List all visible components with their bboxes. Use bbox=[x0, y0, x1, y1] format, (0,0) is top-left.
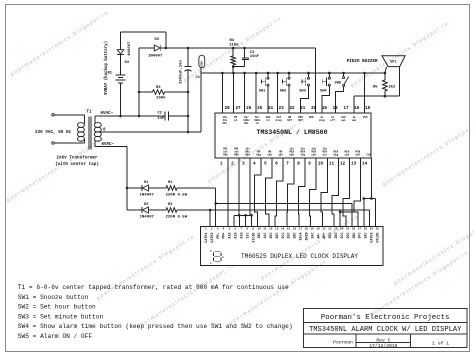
svg-text:26: 26 bbox=[246, 107, 252, 111]
svg-text:CATH2: CATH2 bbox=[211, 233, 215, 243]
svg-text:16: 16 bbox=[293, 227, 297, 230]
svg-text:SW2: SW2 bbox=[280, 89, 287, 93]
svg-text:c&d: c&d bbox=[344, 153, 349, 157]
svg-text:COLON: COLON bbox=[376, 233, 380, 243]
svg-text:T1: T1 bbox=[87, 111, 93, 115]
svg-text:D4: D4 bbox=[125, 61, 130, 65]
svg-text:b&g: b&g bbox=[333, 153, 338, 157]
svg-text:15: 15 bbox=[365, 107, 371, 111]
svg-text:SW2 = Set hour button: SW2 = Set hour button bbox=[18, 304, 96, 311]
svg-text:CATH1: CATH1 bbox=[205, 233, 209, 243]
svg-text:14: 14 bbox=[362, 163, 368, 167]
svg-text:9: 9 bbox=[252, 227, 254, 230]
svg-text:27: 27 bbox=[358, 227, 362, 230]
svg-text:19: 19 bbox=[322, 107, 328, 111]
svg-text:3BC: 3BC bbox=[353, 233, 357, 239]
svg-text:2DC: 2DC bbox=[276, 233, 280, 239]
svg-text:9VBAT (backup battery): 9VBAT (backup battery) bbox=[104, 41, 109, 95]
svg-text:2CC: 2CC bbox=[282, 233, 286, 239]
svg-text:1N4007: 1N4007 bbox=[128, 41, 132, 56]
svg-text:Poorman: Poorman bbox=[333, 340, 353, 346]
svg-text:off: off bbox=[330, 118, 335, 122]
svg-text:21: 21 bbox=[300, 107, 306, 111]
svg-text:27: 27 bbox=[235, 107, 241, 111]
svg-text:SW4 = Show alarm time button (: SW4 = Show alarm time button (keep press… bbox=[18, 323, 293, 330]
svg-text:20: 20 bbox=[316, 227, 320, 230]
svg-text:R1: R1 bbox=[168, 181, 173, 185]
svg-text:SW3 = Set minute button: SW3 = Set minute button bbox=[18, 313, 104, 320]
svg-text:18: 18 bbox=[333, 107, 339, 111]
svg-text:PM+: PM+ bbox=[223, 233, 227, 239]
svg-text:SET: SET bbox=[298, 119, 303, 122]
svg-text:C1: C1 bbox=[196, 76, 201, 80]
svg-text:18: 18 bbox=[305, 227, 309, 230]
svg-text:22: 22 bbox=[328, 227, 332, 230]
svg-text:3CC: 3CC bbox=[341, 233, 345, 239]
svg-text:17/12/2016: 17/12/2016 bbox=[369, 343, 397, 349]
svg-text:30: 30 bbox=[376, 227, 380, 230]
svg-text:15nF: 15nF bbox=[250, 55, 260, 59]
svg-text:dot: dot bbox=[322, 153, 327, 157]
svg-text:25: 25 bbox=[257, 107, 263, 111]
svg-text:disp: disp bbox=[319, 118, 326, 122]
svg-text:17: 17 bbox=[299, 227, 303, 230]
svg-text:1000uF,16v: 1000uF,16v bbox=[180, 59, 184, 84]
svg-text:29: 29 bbox=[370, 227, 374, 230]
svg-text:24: 24 bbox=[340, 227, 344, 230]
svg-text:1BC: 1BC bbox=[258, 233, 262, 239]
svg-text:T1 = 6-0-6v center tapped tran: T1 = 6-0-6v center tapped transformer, r… bbox=[18, 284, 289, 291]
svg-text:13: 13 bbox=[275, 227, 279, 230]
svg-text:13: 13 bbox=[351, 163, 357, 167]
svg-text:HRb: HRb bbox=[234, 153, 239, 157]
svg-text:3DC: 3DC bbox=[335, 233, 339, 239]
svg-text:3AC: 3AC bbox=[365, 233, 369, 239]
svg-text:R5: R5 bbox=[373, 86, 378, 90]
svg-text:17: 17 bbox=[343, 107, 349, 111]
svg-text:b&g: b&g bbox=[256, 153, 261, 157]
svg-text:AM-: AM- bbox=[317, 233, 321, 239]
svg-text:26: 26 bbox=[352, 227, 356, 230]
svg-text:10: 10 bbox=[318, 163, 324, 167]
svg-text:2BC: 2BC bbox=[294, 233, 298, 239]
svg-text:auL: auL bbox=[352, 119, 357, 122]
svg-text:24: 24 bbox=[268, 107, 274, 111]
svg-text:VSS: VSS bbox=[363, 116, 368, 119]
svg-text:LA: LA bbox=[234, 119, 238, 122]
svg-text:Rev C: Rev C bbox=[376, 337, 390, 343]
svg-text:c&d: c&d bbox=[267, 153, 272, 157]
svg-text:1N4007: 1N4007 bbox=[140, 216, 155, 220]
svg-text:20: 20 bbox=[311, 107, 317, 111]
svg-text:Poorman's Electronic Projects: Poorman's Electronic Projects bbox=[321, 314, 450, 322]
svg-text:c&e: c&e bbox=[311, 154, 316, 157]
svg-text:A1D: A1D bbox=[235, 233, 239, 239]
svg-text:31C: 31C bbox=[246, 233, 250, 239]
svg-text:2k2: 2k2 bbox=[389, 85, 397, 90]
svg-text:SW1: SW1 bbox=[259, 89, 266, 93]
svg-text:10sA: 10sA bbox=[300, 232, 304, 241]
svg-text:HRa: HRa bbox=[223, 154, 228, 157]
svg-text:HRe: HRe bbox=[245, 154, 250, 157]
svg-text:23: 23 bbox=[279, 107, 285, 111]
svg-text:2x6v Transformer: 2x6v Transformer bbox=[56, 156, 98, 161]
svg-text:28: 28 bbox=[225, 107, 231, 111]
svg-text:R4: R4 bbox=[230, 39, 235, 43]
svg-text:LA: LA bbox=[256, 122, 260, 125]
svg-text:12: 12 bbox=[340, 163, 346, 167]
svg-text:D3: D3 bbox=[155, 38, 160, 42]
svg-text:15: 15 bbox=[287, 227, 291, 230]
svg-text:D1: D1 bbox=[144, 181, 149, 185]
svg-text:f&g: f&g bbox=[300, 153, 305, 157]
svg-text:TMS3450NL / LM8560: TMS3450NL / LM8560 bbox=[256, 129, 327, 136]
svg-text:SW3: SW3 bbox=[299, 89, 306, 93]
svg-text:19: 19 bbox=[311, 227, 315, 230]
svg-text:R2: R2 bbox=[168, 203, 173, 207]
svg-text:PM-: PM- bbox=[217, 233, 221, 239]
svg-text:GND: GND bbox=[201, 61, 204, 67]
svg-text:D2: D2 bbox=[144, 203, 149, 207]
svg-text:auL: auL bbox=[341, 119, 346, 122]
svg-text:SW4: SW4 bbox=[320, 89, 327, 93]
svg-text:a&f: a&f bbox=[278, 153, 283, 157]
svg-text:16: 16 bbox=[354, 107, 360, 111]
svg-text:21: 21 bbox=[322, 227, 326, 230]
svg-text:14: 14 bbox=[281, 227, 285, 230]
svg-text:1N4007: 1N4007 bbox=[148, 54, 163, 58]
svg-text:2EC: 2EC bbox=[270, 233, 274, 239]
svg-text:100k: 100k bbox=[156, 96, 166, 101]
svg-text:TMS3450NL ALARM CLOCK W/ LED D: TMS3450NL ALARM CLOCK W/ LED DISPLAY bbox=[309, 326, 462, 334]
svg-text:SW5 = Alarm ON / OFF: SW5 = Alarm ON / OFF bbox=[18, 333, 93, 340]
svg-text:1nF: 1nF bbox=[157, 117, 165, 121]
svg-text:5: 5 bbox=[229, 227, 231, 230]
svg-text:2AC: 2AC bbox=[311, 233, 315, 239]
svg-text:PIEZO BUZZER: PIEZO BUZZER bbox=[347, 59, 378, 64]
svg-text:11: 11 bbox=[329, 163, 335, 167]
svg-text:6VAC~: 6VAC~ bbox=[101, 112, 114, 116]
svg-text:TM60525 DUPLEX LED CLOCK DISPL: TM60525 DUPLEX LED CLOCK DISPLAY bbox=[241, 253, 358, 260]
svg-text:SW1 = Snooze button: SW1 = Snooze button bbox=[18, 294, 89, 301]
svg-text:22: 22 bbox=[289, 107, 295, 111]
svg-text:R3: R3 bbox=[156, 86, 161, 90]
svg-text:3FC: 3FC bbox=[359, 233, 363, 239]
svg-text:2GC: 2GC bbox=[288, 233, 292, 239]
svg-text:COL: COL bbox=[367, 154, 372, 157]
svg-text:3GC: 3GC bbox=[347, 233, 351, 239]
svg-text:SP1: SP1 bbox=[390, 61, 396, 65]
svg-text:1AC: 1AC bbox=[264, 233, 268, 239]
svg-text:23: 23 bbox=[334, 227, 338, 230]
svg-text:220 VAC, 50 Hz: 220 VAC, 50 Hz bbox=[35, 130, 72, 135]
svg-text:28: 28 bbox=[364, 227, 368, 230]
svg-text:1HZB: 1HZB bbox=[305, 233, 309, 241]
svg-text:11: 11 bbox=[263, 227, 267, 230]
svg-text:A1G: A1G bbox=[240, 233, 244, 239]
svg-text:CATH3: CATH3 bbox=[370, 233, 374, 243]
svg-text:C2: C2 bbox=[157, 112, 162, 116]
svg-text:220R 0.5W: 220R 0.5W bbox=[166, 194, 188, 198]
svg-text:SEL: SEL bbox=[222, 122, 227, 125]
svg-text:1 of 1: 1 of 1 bbox=[432, 341, 449, 347]
svg-text:10: 10 bbox=[257, 227, 261, 230]
svg-text:31C3D: 31C3D bbox=[252, 233, 256, 243]
svg-text:a&b: a&b bbox=[289, 153, 294, 157]
svg-text:(with center tap): (with center tap) bbox=[55, 162, 99, 167]
svg-text:SW5: SW5 bbox=[335, 82, 342, 86]
svg-text:AM+: AM+ bbox=[323, 233, 327, 239]
svg-text:25: 25 bbox=[346, 227, 350, 230]
svg-text:3EC: 3EC bbox=[329, 233, 333, 239]
svg-text:VDD: VDD bbox=[309, 116, 314, 119]
svg-text:LA: LA bbox=[266, 119, 270, 122]
svg-text:a&f: a&f bbox=[356, 153, 361, 157]
svg-text:1N4007: 1N4007 bbox=[140, 194, 155, 198]
svg-text:12: 12 bbox=[269, 227, 273, 230]
svg-text:A1E: A1E bbox=[229, 233, 233, 239]
svg-text:SEL: SEL bbox=[244, 122, 249, 125]
svg-text:110k: 110k bbox=[229, 42, 239, 47]
svg-text:SET: SET bbox=[287, 119, 292, 122]
svg-text:220R 0.5W: 220R 0.5W bbox=[166, 216, 188, 220]
svg-text:disp: disp bbox=[276, 118, 283, 122]
